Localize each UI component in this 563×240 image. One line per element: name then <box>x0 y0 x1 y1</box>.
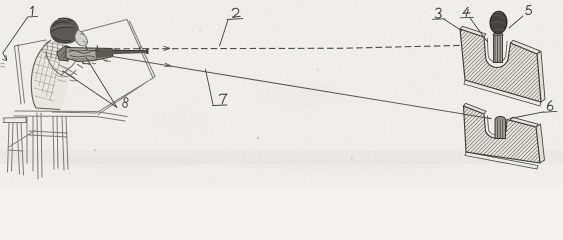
front face with notch <box>464 106 541 163</box>
scan specks <box>94 30 352 159</box>
label 1 <box>3 6 38 60</box>
label 6 <box>510 101 557 119</box>
table legs left <box>27 113 42 179</box>
barrel <box>112 50 147 54</box>
front sight <box>139 47 141 51</box>
table legs right <box>53 117 68 171</box>
rear sight <box>86 46 98 51</box>
label 2 <box>220 8 244 46</box>
label 4 <box>461 7 488 42</box>
stool seat bar <box>3 118 27 123</box>
board top-left edge stub <box>15 40 46 46</box>
notch inner line <box>488 116 505 136</box>
fingers under stock <box>82 63 96 65</box>
trigger area scribble <box>77 62 90 68</box>
solid trajectory line (7) <box>112 57 491 119</box>
person <box>31 18 101 110</box>
stool diagonal brace <box>8 131 35 148</box>
board near/bottom edge (double) <box>52 77 155 115</box>
chest shading under rifle <box>53 64 68 81</box>
forearm on board <box>59 65 78 81</box>
top face strips <box>464 103 539 127</box>
torso fill (light) <box>31 40 72 109</box>
butt <box>57 46 73 62</box>
front face with notch <box>460 29 541 102</box>
hands on rifle <box>78 53 101 61</box>
action/bolt dark patch <box>95 49 113 59</box>
forward hand scribble <box>100 58 111 61</box>
dashed sight line (2) <box>104 45 462 48</box>
label 7 <box>206 70 228 106</box>
muzzle <box>146 49 149 54</box>
leg crossbar <box>29 131 67 137</box>
rifle <box>57 46 149 69</box>
notch inner line <box>487 38 507 63</box>
table edge <box>14 111 127 121</box>
stool legs <box>8 123 24 175</box>
stool rail <box>8 150 23 151</box>
stock scribbles <box>68 50 99 57</box>
edge mark <box>1 64 6 68</box>
collar plaid patch <box>43 41 66 61</box>
bottom strip <box>465 152 538 169</box>
top face strip <box>460 26 540 54</box>
arm sleeve <box>46 52 78 75</box>
stock/action <box>66 48 113 62</box>
label 8 <box>63 58 128 108</box>
face <box>75 30 88 46</box>
label 3 <box>433 8 462 30</box>
side face <box>536 124 545 163</box>
board left edge (double) <box>15 45 25 105</box>
apple (target black) <box>489 11 507 35</box>
side face strip <box>537 52 545 103</box>
bottom strip <box>464 80 541 106</box>
scan smudges <box>0 83 563 170</box>
plaid texture <box>34 44 62 101</box>
board right edge (double) <box>127 20 155 79</box>
front sight post lower <box>495 120 506 139</box>
paper background <box>0 0 563 187</box>
drawing board far edge <box>76 20 127 34</box>
label 5 <box>509 5 531 28</box>
front sight post <box>494 35 503 63</box>
hair <box>50 18 79 44</box>
trajectory end over block <box>462 114 492 119</box>
back outline <box>31 40 60 110</box>
